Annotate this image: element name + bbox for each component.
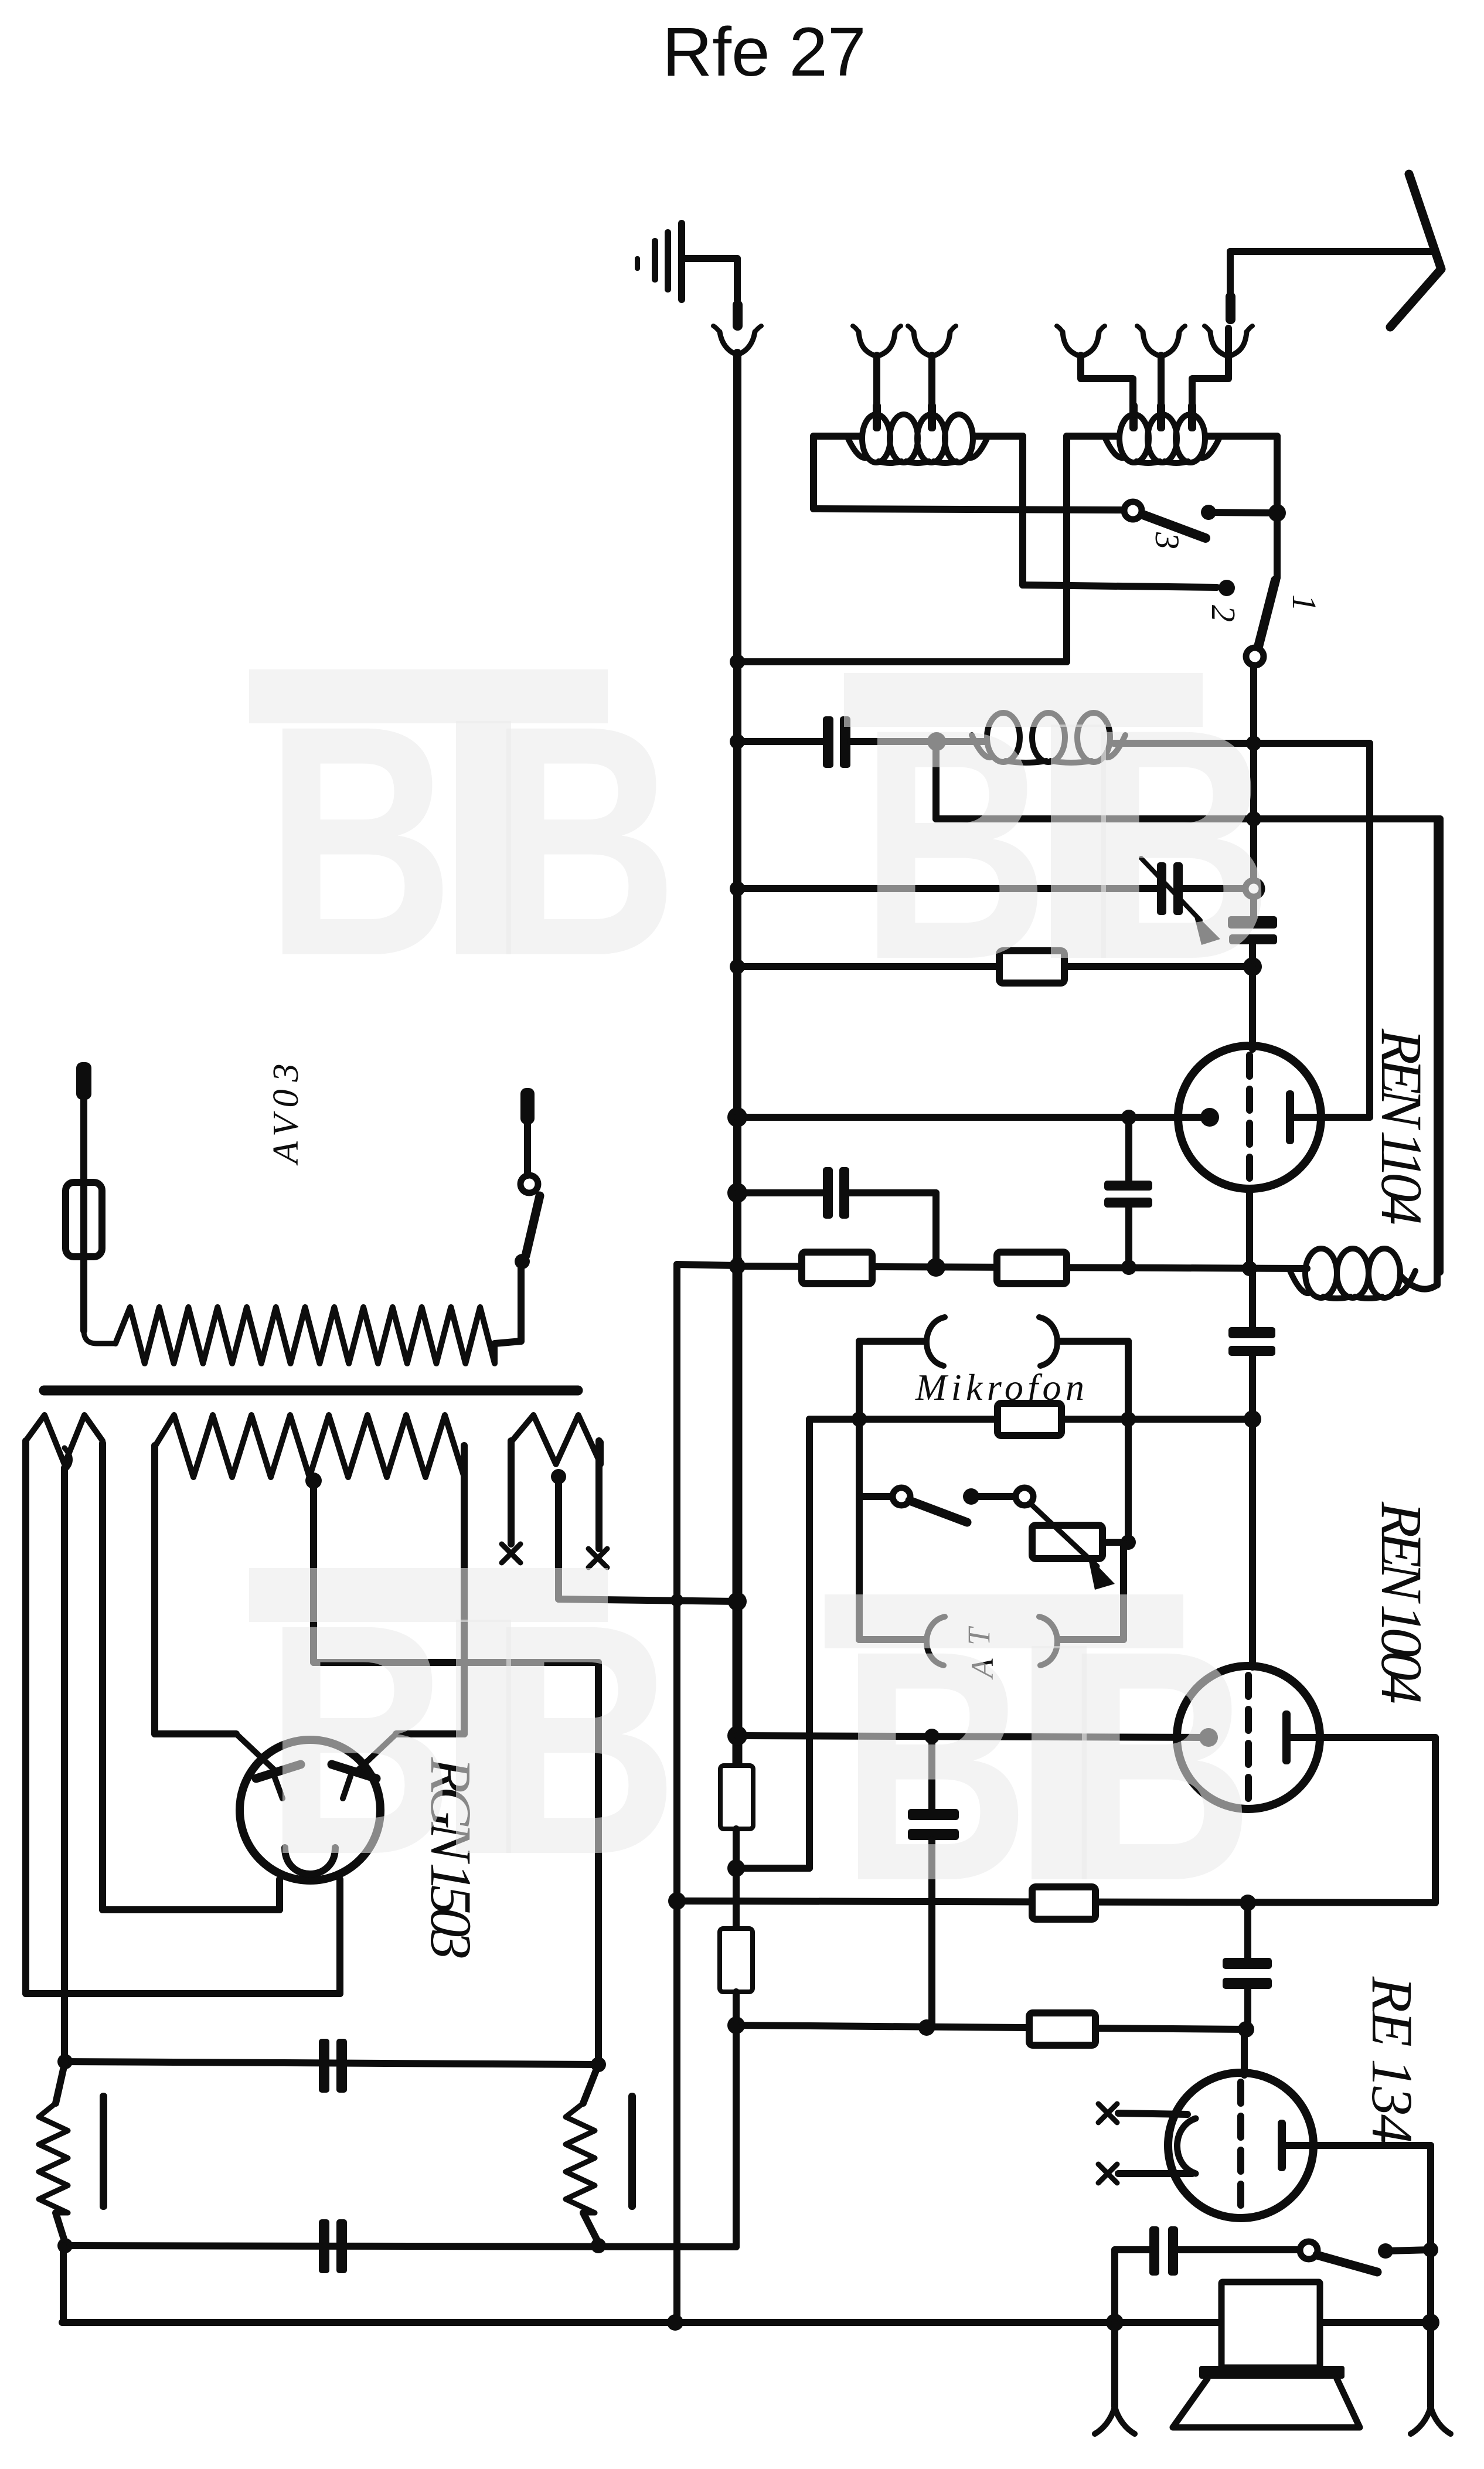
svg-text:0: 0 [266,1090,306,1108]
svg-text:B: B [489,1556,679,1923]
svg-text:1: 1 [1285,594,1323,611]
svg-text:2: 2 [1204,605,1243,622]
svg-text:Rfe 27: Rfe 27 [662,13,866,91]
svg-text:B: B [860,661,1050,1028]
svg-text:B: B [1084,661,1274,1028]
svg-text:3: 3 [1148,532,1186,549]
svg-text:V: V [266,1111,306,1137]
svg-text:REN 1104: REN 1104 [1369,1028,1434,1225]
svg-text:B: B [840,1583,1030,1949]
svg-text:B: B [265,1556,455,1923]
svg-text:RE 134: RE 134 [1360,1976,1425,2144]
svg-text:B: B [265,658,455,1024]
svg-text:3: 3 [266,1064,306,1083]
svg-text:A: A [266,1141,306,1166]
svg-text:B: B [489,658,679,1024]
svg-text:REN 1004: REN 1004 [1369,1501,1434,1704]
svg-text:B: B [1064,1583,1254,1949]
